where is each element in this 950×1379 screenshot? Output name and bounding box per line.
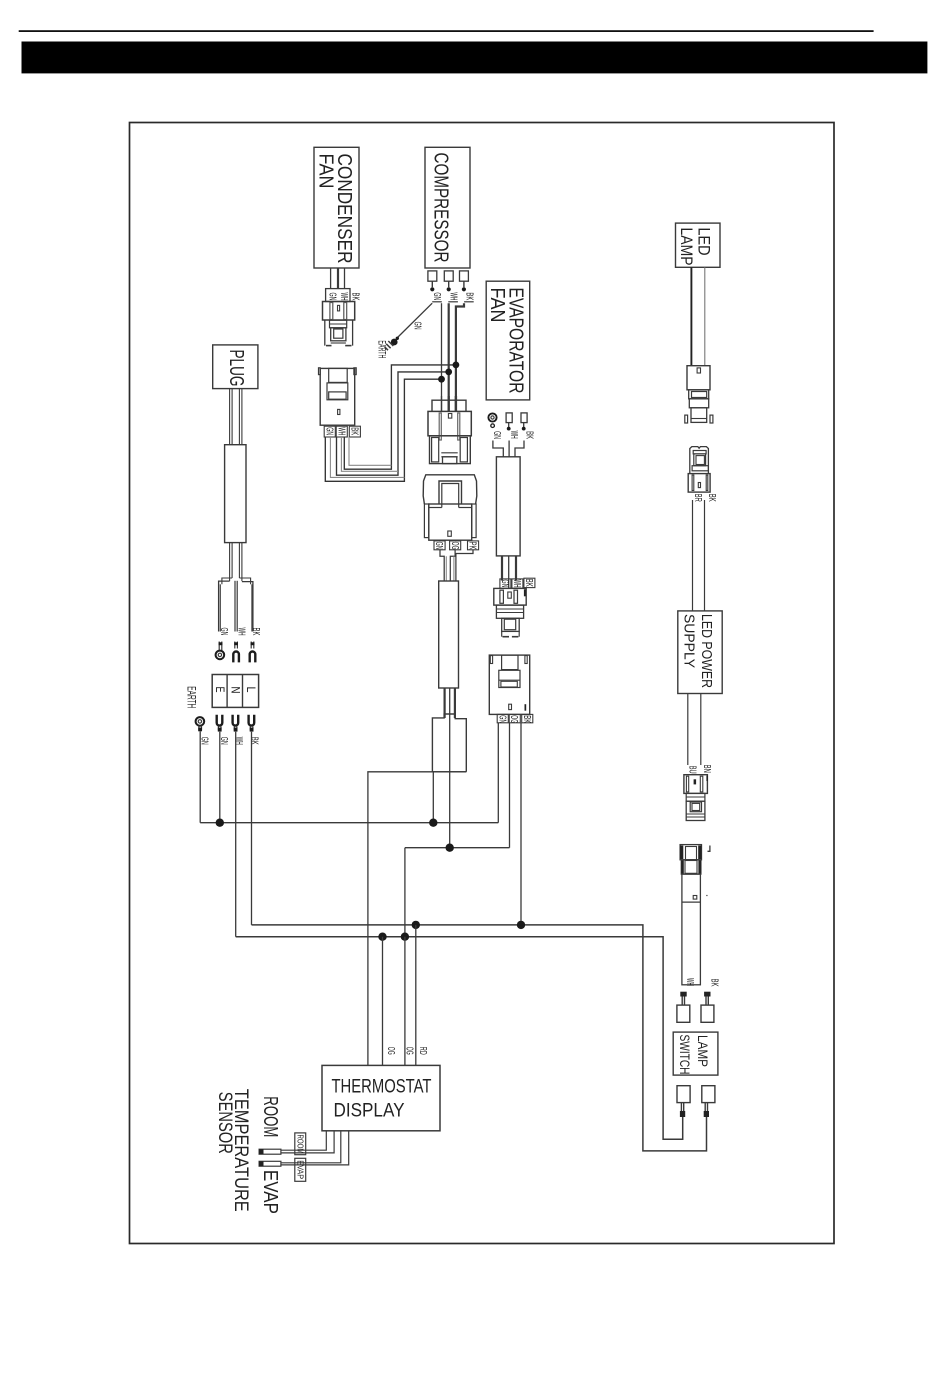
svg-text:GN: GN xyxy=(323,427,335,435)
wire stub 3 xyxy=(456,550,473,581)
svg-text:BK: BK xyxy=(249,737,261,745)
junction dot B xyxy=(446,844,454,852)
svg-text:GN: GN xyxy=(433,542,445,550)
earth terminal bead xyxy=(396,337,399,340)
page top rule xyxy=(19,30,874,32)
svg-text:DISPLAY: DISPLAY xyxy=(334,1100,405,1122)
earth hatch strokes xyxy=(388,341,393,346)
wire CN5 BK down to bus 1 xyxy=(520,723,522,925)
bus 2 wire xyxy=(236,937,683,1139)
svg-text:WH: WH xyxy=(447,292,459,300)
compressor pin 2 xyxy=(444,271,453,281)
svg-text:LAMP: LAMP xyxy=(695,1035,710,1067)
wire condenser WH xyxy=(337,268,339,289)
fork terminal WH xyxy=(233,715,239,726)
diagram border frame xyxy=(130,123,835,1244)
wire earth ring to line H1 xyxy=(199,731,201,822)
wires below cable C1 xyxy=(444,688,446,718)
spade terminal right xyxy=(704,992,710,997)
fork terminal WH xyxy=(234,642,236,649)
svg-text:N: N xyxy=(229,687,243,694)
svg-text:WH: WH xyxy=(511,580,523,588)
connector CN2 lower xyxy=(430,436,471,464)
svg-text:WH: WH xyxy=(233,737,245,745)
svg-text:WH: WH xyxy=(508,431,520,439)
svg-text:FAN: FAN xyxy=(315,154,337,189)
svg-text:SUPPLY: SUPPLY xyxy=(681,614,697,668)
svg-text:BK: BK xyxy=(521,715,533,723)
wires below cable C2 xyxy=(501,556,503,581)
fork terminal GN xyxy=(217,715,223,726)
connector CN2 body xyxy=(428,411,471,435)
svg-text:SENSOR: SENSOR xyxy=(214,1092,235,1154)
plug cable wires xyxy=(229,389,231,445)
room sensor probe xyxy=(259,1149,281,1154)
wire stub 1 xyxy=(440,550,444,581)
svg-text:BN: BN xyxy=(701,765,713,773)
wire riser H2 to bus2 xyxy=(404,848,406,937)
connector CN4 plug xyxy=(494,588,526,605)
ring terminal below block xyxy=(196,717,205,726)
connector CNC led socket xyxy=(690,447,709,473)
svg-text:THERMOSTAT: THERMOSTAT xyxy=(332,1076,432,1098)
wires to led power supply xyxy=(692,500,694,611)
spade terminal below left xyxy=(677,1086,690,1103)
room tag box xyxy=(295,1133,306,1155)
lamp switch stem xyxy=(682,874,701,985)
terminal block ENL xyxy=(212,675,258,708)
ring terminal GN xyxy=(218,642,220,651)
evap sensor probe xyxy=(259,1161,281,1166)
wire CN5 OG down to line H2 xyxy=(509,723,511,848)
wire CN5 GN down to line H1 xyxy=(497,723,499,823)
svg-text:E: E xyxy=(213,687,227,693)
cable fork xyxy=(219,581,230,631)
connector CN1b socket xyxy=(319,368,321,375)
connector CNF xyxy=(680,845,701,860)
svg-text:SWITCH: SWITCH xyxy=(677,1035,692,1075)
fork terminal BK xyxy=(249,715,255,726)
svg-text:L: L xyxy=(244,687,258,693)
led lamp wires xyxy=(690,267,692,365)
junction dot bus1 thermostat xyxy=(412,921,420,929)
svg-text:BK: BK xyxy=(523,579,535,587)
wire ROOM sensor pair xyxy=(281,1131,326,1150)
junction dot GN xyxy=(438,376,445,383)
wire thermostat RD xyxy=(415,925,417,1066)
wire WH fork to bus 2 xyxy=(235,732,237,937)
evap tag box xyxy=(295,1158,306,1181)
wire socket WH route to junction xyxy=(337,372,449,475)
svg-text:EVAP: EVAP xyxy=(259,1170,281,1214)
plug cable sleeve xyxy=(225,445,246,543)
evaporator fan box xyxy=(486,281,530,400)
compressor pin 3 xyxy=(460,271,469,281)
svg-text:PK: PK xyxy=(467,542,479,550)
wire stub 2 xyxy=(450,550,455,581)
wires out of led power supply xyxy=(687,694,689,766)
svg-text:BK: BK xyxy=(524,431,536,439)
svg-text:ROOM: ROOM xyxy=(295,1135,305,1154)
wire line H1 green xyxy=(200,822,498,824)
cable sleeve C1 xyxy=(439,581,459,688)
terminal 3 xyxy=(521,413,527,423)
bracket mark xyxy=(708,846,710,852)
wire to junction dot A xyxy=(432,772,434,823)
label sleeve row xyxy=(324,426,335,437)
svg-text:EARTH: EARTH xyxy=(376,340,388,358)
svg-text:BK: BK xyxy=(708,979,720,987)
wire to junction dot B xyxy=(449,772,451,848)
label sleeve row xyxy=(500,579,511,588)
svg-text:OG: OG xyxy=(404,1047,416,1055)
led lamp box xyxy=(676,223,721,267)
compressor box xyxy=(425,147,470,268)
junction dot WH xyxy=(445,369,452,376)
connector CNE xyxy=(684,775,708,794)
svg-text:GN: GN xyxy=(327,293,339,301)
junction dot BK xyxy=(453,362,460,369)
svg-text:RD: RD xyxy=(417,1047,429,1055)
svg-text:GN: GN xyxy=(412,322,424,330)
wire thermostat OG 2 xyxy=(404,937,406,1066)
svg-text:BK: BK xyxy=(349,293,361,301)
svg-text:BK: BK xyxy=(706,494,718,502)
wire along box bottom to thermostat xyxy=(368,772,466,1066)
svg-text:OG: OG xyxy=(508,715,520,723)
label sleeve row xyxy=(434,541,445,550)
wire line H2 xyxy=(405,847,510,849)
connector CNB led plug xyxy=(687,366,710,390)
plug box xyxy=(213,345,258,389)
wire WH vertical to junction xyxy=(448,303,450,411)
cable junction box SB xyxy=(432,714,466,772)
wire BK vertical with jog xyxy=(456,303,464,411)
connector CN3 cap xyxy=(423,475,477,504)
svg-text:BU: BU xyxy=(686,766,698,774)
ring terminal xyxy=(488,413,496,421)
svg-text:GN: GN xyxy=(491,431,503,439)
svg-text:FAN: FAN xyxy=(486,288,508,323)
connector CN5 receptacle xyxy=(489,655,529,714)
svg-text:GN: GN xyxy=(499,580,511,588)
bus 1 wire xyxy=(252,925,707,1151)
wire BK fork to bus 1 xyxy=(251,732,253,925)
svg-text:ROOM: ROOM xyxy=(259,1096,281,1137)
svg-text:WH: WH xyxy=(335,427,347,435)
led power supply box xyxy=(678,611,722,694)
black title bar xyxy=(22,42,928,74)
svg-text:LED POWER: LED POWER xyxy=(698,614,714,688)
cable sleeve C2 xyxy=(496,457,520,556)
svg-text:GN: GN xyxy=(496,715,508,723)
svg-text:EARTH: EARTH xyxy=(185,686,197,708)
svg-text:BK: BK xyxy=(349,427,361,435)
connector CN1 condenser fan plug xyxy=(326,289,350,302)
svg-text:GN: GN xyxy=(218,628,230,636)
condenser fan box xyxy=(314,147,359,268)
wires merge into cable C2 xyxy=(493,441,503,457)
svg-text:WH: WH xyxy=(338,293,350,301)
connector CN3 U cutout xyxy=(439,481,462,504)
junction dot bus2 thermostat xyxy=(378,933,386,941)
fork terminal BK xyxy=(250,642,252,649)
junction dot xyxy=(216,819,224,827)
svg-text:OG: OG xyxy=(385,1047,397,1055)
compressor pin 1 xyxy=(428,271,437,281)
wire condenser BK xyxy=(344,268,346,289)
svg-text:BK: BK xyxy=(463,292,475,300)
svg-text:BK: BK xyxy=(250,628,262,636)
svg-text:PLUG: PLUG xyxy=(225,350,247,387)
svg-text:LED: LED xyxy=(695,228,714,256)
svg-text:WH: WH xyxy=(684,978,696,986)
junction dot A xyxy=(429,819,437,827)
plug cable wires 2 xyxy=(229,543,231,582)
svg-text:WH: WH xyxy=(235,628,247,636)
junction dot bus2 H2 xyxy=(401,933,409,941)
spade terminal below right xyxy=(702,1086,715,1103)
svg-text:BR: BR xyxy=(692,494,704,502)
label sleeve row xyxy=(497,714,508,722)
connector CN2 hood xyxy=(432,400,466,411)
wire condenser GN xyxy=(330,268,332,289)
wire EVAP sensor pair xyxy=(281,1131,341,1163)
wire socket BK route to junction xyxy=(344,365,456,469)
connector CN3 body xyxy=(429,504,472,540)
svg-text:LAMP: LAMP xyxy=(677,228,696,266)
thermostat display box xyxy=(322,1065,440,1130)
lamp switch box xyxy=(673,1032,718,1075)
terminal 2 xyxy=(506,413,512,423)
junction dot bus1 CN5 xyxy=(517,921,525,929)
svg-text:OG: OG xyxy=(449,542,461,550)
wire GN to earth (diagonal) xyxy=(398,303,433,337)
wire GN vertical to junction xyxy=(441,303,443,411)
wire GN fork to line H1 xyxy=(219,732,221,823)
wire thermostat OG 1 xyxy=(382,937,384,1066)
wire socket GN route to junction xyxy=(325,379,441,481)
svg-text:GN: GN xyxy=(431,292,443,300)
svg-text:EVAP: EVAP xyxy=(295,1160,305,1179)
svg-text:COMPRESSOR: COMPRESSOR xyxy=(430,153,452,263)
spade terminal left xyxy=(680,992,686,997)
